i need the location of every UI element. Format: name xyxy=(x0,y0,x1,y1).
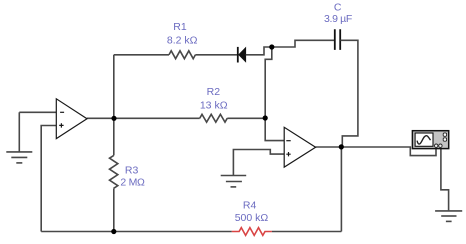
wire U2 plus to ground xyxy=(233,150,284,176)
wire scope to ground lead xyxy=(441,147,449,211)
wire R3 to rail xyxy=(113,189,115,232)
svg-text:R1: R1 xyxy=(173,21,187,33)
op-amp U2 xyxy=(284,127,315,167)
wire ground G1 lead xyxy=(18,112,20,151)
svg-text:8.2 kΩ: 8.2 kΩ xyxy=(167,35,198,47)
svg-text:R3: R3 xyxy=(125,164,139,176)
wire node jog down xyxy=(265,47,272,118)
wire U1 plus input feedback xyxy=(41,126,56,232)
wire diode to node xyxy=(246,47,272,55)
diode D1 xyxy=(239,47,246,62)
diode D1 cathode bar xyxy=(237,47,239,63)
ground G2 xyxy=(221,176,247,187)
node junction: U2 output / C feedback / R4 rail xyxy=(339,144,344,149)
wire R1 horizontal xyxy=(114,54,169,56)
ground G3 xyxy=(435,211,462,222)
wire bottom rail right xyxy=(272,231,342,233)
resistor R3 xyxy=(110,155,118,188)
node junction: bottom rail / R3 xyxy=(111,229,116,234)
wire R2 to node xyxy=(227,117,265,119)
resistor R2 xyxy=(200,114,228,122)
capacitor C plates xyxy=(335,29,340,50)
op-amp U1 xyxy=(56,99,87,139)
svg-text:13 kΩ: 13 kΩ xyxy=(200,99,228,111)
node junction: diode / capacitor C branch xyxy=(269,44,274,49)
wire U1 minus input xyxy=(19,111,56,113)
wire rail up to U2 output node xyxy=(340,147,342,232)
svg-text:C: C xyxy=(334,2,342,14)
node junction: U1 output / R1 / R2 / R3 xyxy=(111,116,116,121)
wire capacitor right down xyxy=(340,40,358,147)
wire U1 output rail xyxy=(87,117,200,119)
wire node to capacitor xyxy=(272,40,335,47)
wire bottom rail xyxy=(41,231,232,233)
node junction: R2 / diode branch / U2 minus xyxy=(263,115,268,120)
wire R1 to diode xyxy=(195,54,237,56)
resistor R1 xyxy=(169,51,195,59)
svg-text:500 kΩ: 500 kΩ xyxy=(235,212,269,224)
svg-text:3.9 µF: 3.9 µF xyxy=(324,13,352,25)
wire U2 output to scope xyxy=(316,147,436,156)
wire R1 branch vertical xyxy=(113,55,115,156)
svg-text:R4: R4 xyxy=(243,199,257,211)
svg-text:2 MΩ: 2 MΩ xyxy=(120,177,145,189)
oscilloscope XSC1 xyxy=(412,131,448,149)
svg-text:R2: R2 xyxy=(207,86,221,98)
wire node to U2 minus xyxy=(265,118,284,140)
resistor R4 xyxy=(232,228,272,236)
ground G1 xyxy=(6,152,32,163)
